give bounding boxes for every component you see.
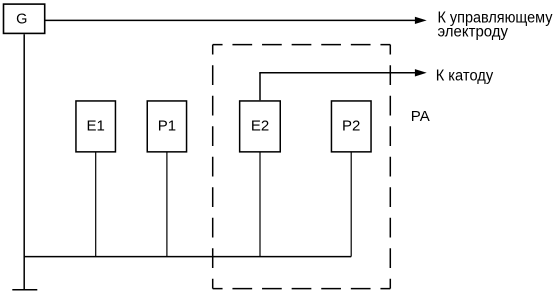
svg-text:E1: E1 [87,118,105,135]
svg-text:РА: РА [411,108,430,125]
svg-text:электроду: электроду [438,24,509,41]
svg-text:E2: E2 [251,118,269,135]
svg-text:P2: P2 [342,118,360,135]
svg-text:К катоду: К катоду [436,68,494,85]
svg-text:P1: P1 [158,118,176,135]
svg-text:G: G [16,12,27,28]
